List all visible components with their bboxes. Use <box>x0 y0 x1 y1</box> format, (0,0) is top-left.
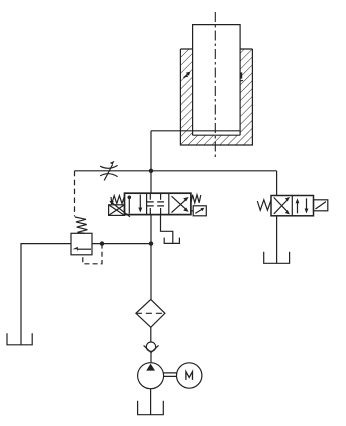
valve V3 left position crossed arrows <box>274 198 288 214</box>
valve V2 left proportional solenoid <box>109 205 125 216</box>
throttle valve arrow <box>104 165 112 181</box>
relief valve V1 body <box>71 233 92 255</box>
motor M1 <box>177 363 202 388</box>
valve V2 left position down arrow <box>139 195 141 210</box>
wire T line to tank <box>161 215 173 244</box>
tank T3 right <box>264 252 290 263</box>
valve V3 right position arrows <box>297 202 299 214</box>
cylinder body hatching bottom <box>193 135 241 145</box>
valve V2 center position blocked ports <box>147 193 164 214</box>
valve V3 body (4/2 directional) <box>271 196 314 216</box>
throttle valve arcs <box>100 165 117 176</box>
valve V2 left spring <box>111 196 125 204</box>
wire V3 to tank <box>276 216 278 263</box>
relief valve internal arrow <box>77 248 91 250</box>
valve V2 right position crossed arrows <box>172 196 187 212</box>
shaft pump-motor <box>164 373 177 377</box>
valve V2 divider 2 <box>168 193 170 214</box>
tank T1 left <box>7 333 32 345</box>
valve V3 spring <box>257 200 271 210</box>
cylinder outer body outline <box>180 49 252 145</box>
cylinder right wall section mark <box>240 72 242 78</box>
wire right branch drop <box>276 171 278 196</box>
wire relief valve right port <box>92 243 151 245</box>
valve V2 divider 1 <box>146 193 148 214</box>
wire horizontal pilot/branch line <box>75 170 277 172</box>
cylinder body hatching left wall <box>180 49 192 145</box>
relief valve spring <box>75 217 87 233</box>
valve V3 divider <box>291 196 293 216</box>
filter F1 <box>136 299 165 327</box>
wire dashed pilot drop to relief valve <box>74 171 76 217</box>
valve V2 right spring <box>191 195 201 203</box>
valve V3 solenoid <box>314 200 328 211</box>
cylinder centerline <box>214 12 216 158</box>
wire filter to check valve <box>150 327 152 342</box>
valve V2 right proportional solenoid <box>191 210 193 212</box>
wire check valve to pump <box>150 353 152 363</box>
wire relief valve left port to tank <box>21 244 71 345</box>
node pilot junction <box>100 241 104 245</box>
valve V2 body (4/3 directional) <box>125 193 191 214</box>
pump P1 <box>138 363 164 389</box>
wire dashed pilot loop under relief valve <box>83 244 102 264</box>
cylinder body hatching right wall <box>240 49 252 145</box>
wire pump to tank <box>150 389 152 415</box>
wire feed line to cylinder <box>151 130 240 132</box>
valve V2 left position up-flow line <box>128 198 130 214</box>
tank T4 under pump <box>138 401 164 415</box>
wire main vertical A-line <box>150 131 152 193</box>
check valve CV1 ball <box>146 342 155 351</box>
wire P line down <box>150 215 152 300</box>
node P junction <box>149 241 153 245</box>
node junction A <box>149 169 153 173</box>
check valve CV1 seat <box>144 345 159 352</box>
cylinder plunger <box>193 25 241 136</box>
cylinder left wall section mark <box>184 72 190 78</box>
tank T2 under valve <box>164 238 179 244</box>
